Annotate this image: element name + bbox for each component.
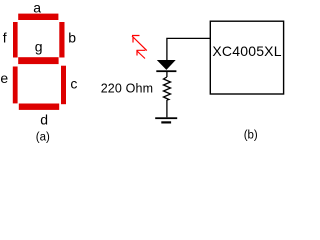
- svg-text:(a): (a): [36, 131, 50, 143]
- LED D1 (triangle): [157, 60, 176, 70]
- svg-text:f: f: [3, 30, 7, 46]
- svg-text:c: c: [70, 76, 77, 92]
- segment b: [59, 22, 64, 58]
- segment a: [18, 14, 58, 20]
- svg-text:g: g: [35, 38, 43, 54]
- svg-text:d: d: [40, 112, 48, 128]
- FPGA box U1: [210, 21, 283, 94]
- ground: [155, 117, 177, 119]
- svg-text:(b): (b): [244, 130, 258, 142]
- segment g: [18, 57, 58, 64]
- LED cathode bar: [156, 70, 176, 72]
- wire resistor to ground: [166, 100, 168, 117]
- light arrow 2: [137, 50, 146, 58]
- resistor R1 zigzag: [164, 77, 171, 100]
- svg-text:a: a: [33, 0, 41, 15]
- wire from LED anode to FPGA pin: [167, 38, 210, 60]
- svg-text:XC4005XL: XC4005XL: [212, 43, 281, 59]
- svg-text:e: e: [0, 70, 8, 86]
- light arrow 1: [132, 36, 147, 51]
- segment d: [19, 104, 59, 110]
- wire LED cathode to resistor: [166, 72, 168, 77]
- segment e: [13, 67, 18, 104]
- svg-text:b: b: [68, 30, 76, 46]
- segment f: [13, 22, 18, 58]
- svg-text:220 Ohm: 220 Ohm: [101, 82, 153, 96]
- segment c: [61, 66, 66, 105]
